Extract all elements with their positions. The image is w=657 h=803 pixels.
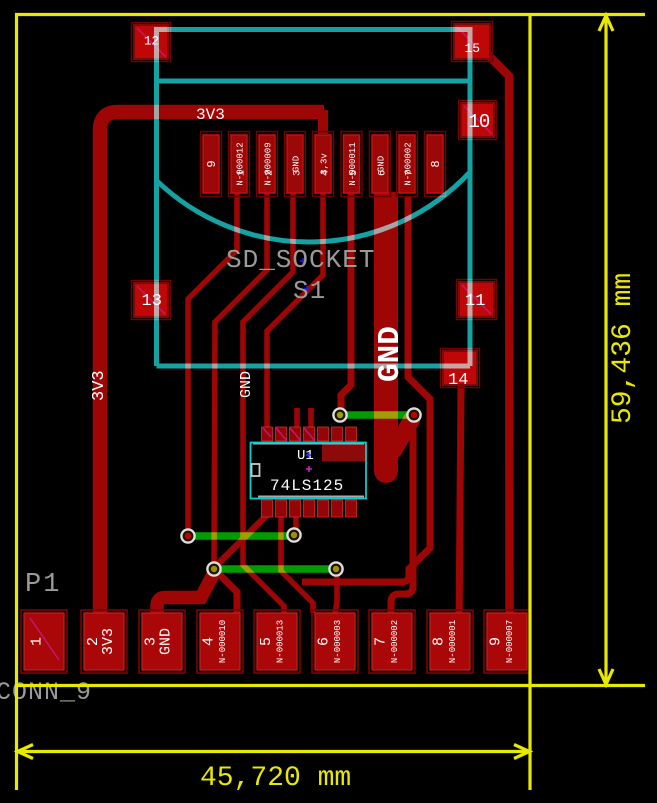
svg-text:14: 14 [448,371,468,390]
svg-text:5: 5 [258,637,275,646]
svg-text:3: 3 [293,170,304,176]
svg-text:2: 2 [265,170,276,176]
svg-text:11: 11 [465,292,485,311]
svg-text:7: 7 [373,637,390,646]
svg-text:N-000003: N-000003 [333,620,343,663]
svg-text:15: 15 [465,41,481,56]
svg-text:N-000002: N-000002 [390,620,400,663]
svg-text:N-000002: N-000002 [404,142,414,185]
svg-text:P1: P1 [25,570,61,600]
svg-text:GND: GND [292,156,302,172]
svg-text:4: 4 [321,170,332,176]
svg-text:SD_SOCKET: SD_SOCKET [226,245,375,275]
svg-text:5: 5 [349,170,360,176]
svg-text:N-000013: N-000013 [276,620,286,663]
svg-text:8: 8 [429,160,443,167]
svg-text:N-000007: N-000007 [505,620,515,663]
svg-text:12: 12 [144,35,159,49]
svg-text:1: 1 [237,170,248,176]
svg-text:1: 1 [29,637,46,646]
svg-text:S1: S1 [293,276,326,306]
svg-text:4: 4 [201,637,218,646]
svg-text:N-000012: N-000012 [236,142,246,185]
svg-text:N-000011: N-000011 [348,142,358,185]
svg-text:9: 9 [488,637,505,646]
svg-text:GND: GND [377,156,387,172]
svg-text:6: 6 [316,637,333,646]
svg-text:74LS125: 74LS125 [270,477,344,495]
svg-text:3V3: 3V3 [90,370,109,401]
svg-text:10: 10 [469,111,490,133]
svg-text:GND: GND [158,628,175,655]
svg-text:N-000009: N-000009 [264,142,274,185]
svg-text:45,720 mm: 45,720 mm [200,763,351,794]
svg-text:13: 13 [142,292,162,311]
svg-text:CONN_9: CONN_9 [0,678,92,707]
svg-text:N-000010: N-000010 [218,620,228,663]
svg-text:GND: GND [373,326,408,382]
svg-text:8: 8 [431,637,448,646]
svg-text:6: 6 [378,170,389,176]
svg-text:3V3: 3V3 [196,106,225,124]
svg-text:U1: U1 [297,448,314,464]
svg-text:9: 9 [205,160,219,167]
svg-text:59,436 mm: 59,436 mm [608,273,639,424]
svg-text:7: 7 [405,170,416,176]
svg-text:N-000001: N-000001 [448,620,458,663]
svg-text:GND: GND [238,371,255,398]
svg-text:3V3: 3V3 [100,628,117,655]
